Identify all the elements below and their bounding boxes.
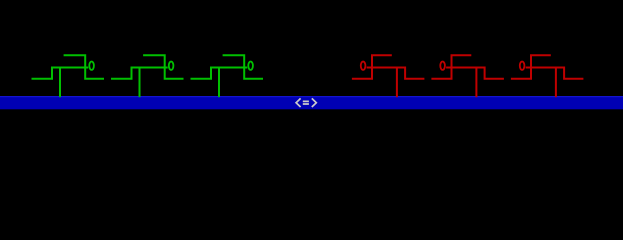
wire: top lead, channel bar, left lead of Q5 — [431, 55, 471, 78]
wire: gate lead and step of Q4 — [367, 67, 425, 78]
wire: top lead, channel bar, right lead of Q3 — [223, 55, 263, 78]
bubble of Q3 — [248, 61, 253, 69]
wire: Q2 channel tap to bus — [139, 67, 141, 98]
wire: top lead, channel bar, left lead of Q4 — [352, 55, 392, 78]
bus label "<=>" — [296, 98, 316, 107]
wire: top lead, channel bar, left lead of Q6 — [511, 55, 551, 78]
wire: Q4 channel tap to bus — [396, 67, 398, 98]
wire: Q3 channel tap to bus — [218, 67, 220, 98]
bubble of Q5 — [440, 61, 445, 69]
wire: gate lead and step of Q3 — [191, 67, 248, 78]
bubble of Q2 — [169, 61, 174, 69]
bubble of Q4 — [361, 61, 366, 69]
bubble of Q1 — [89, 61, 94, 69]
transistor Q6 (p-type, red, mirrored) — [511, 55, 584, 97]
wire: Q1 channel tap to bus — [59, 67, 61, 98]
wire: Q5 channel tap to bus — [475, 67, 477, 98]
bubble of Q6 — [520, 61, 525, 69]
glyph: less-than — [296, 98, 301, 107]
wire: gate lead and step of Q1 — [32, 67, 89, 78]
transistor Q2 (p-type, green) — [111, 55, 184, 97]
wire: gate lead and step of Q6 — [526, 67, 584, 78]
wire: top lead, channel bar, right lead of Q2 — [143, 55, 183, 78]
transistor Q1 (p-type, green) — [32, 55, 105, 97]
wire: Q6 channel tap to bus — [555, 67, 557, 98]
glyph: greater-than — [312, 98, 317, 107]
bus bar (blue) — [0, 96, 623, 109]
wire: gate lead and step of Q2 — [111, 67, 168, 78]
transistor Q4 (p-type, red, mirrored) — [352, 55, 425, 97]
transistor Q5 (p-type, red, mirrored) — [431, 55, 504, 97]
wire: gate lead and step of Q5 — [446, 67, 504, 78]
glyph: equals — [303, 101, 309, 104]
wire: top lead, channel bar, right lead of Q1 — [64, 55, 104, 78]
transistor Q3 (p-type, green) — [191, 55, 264, 97]
